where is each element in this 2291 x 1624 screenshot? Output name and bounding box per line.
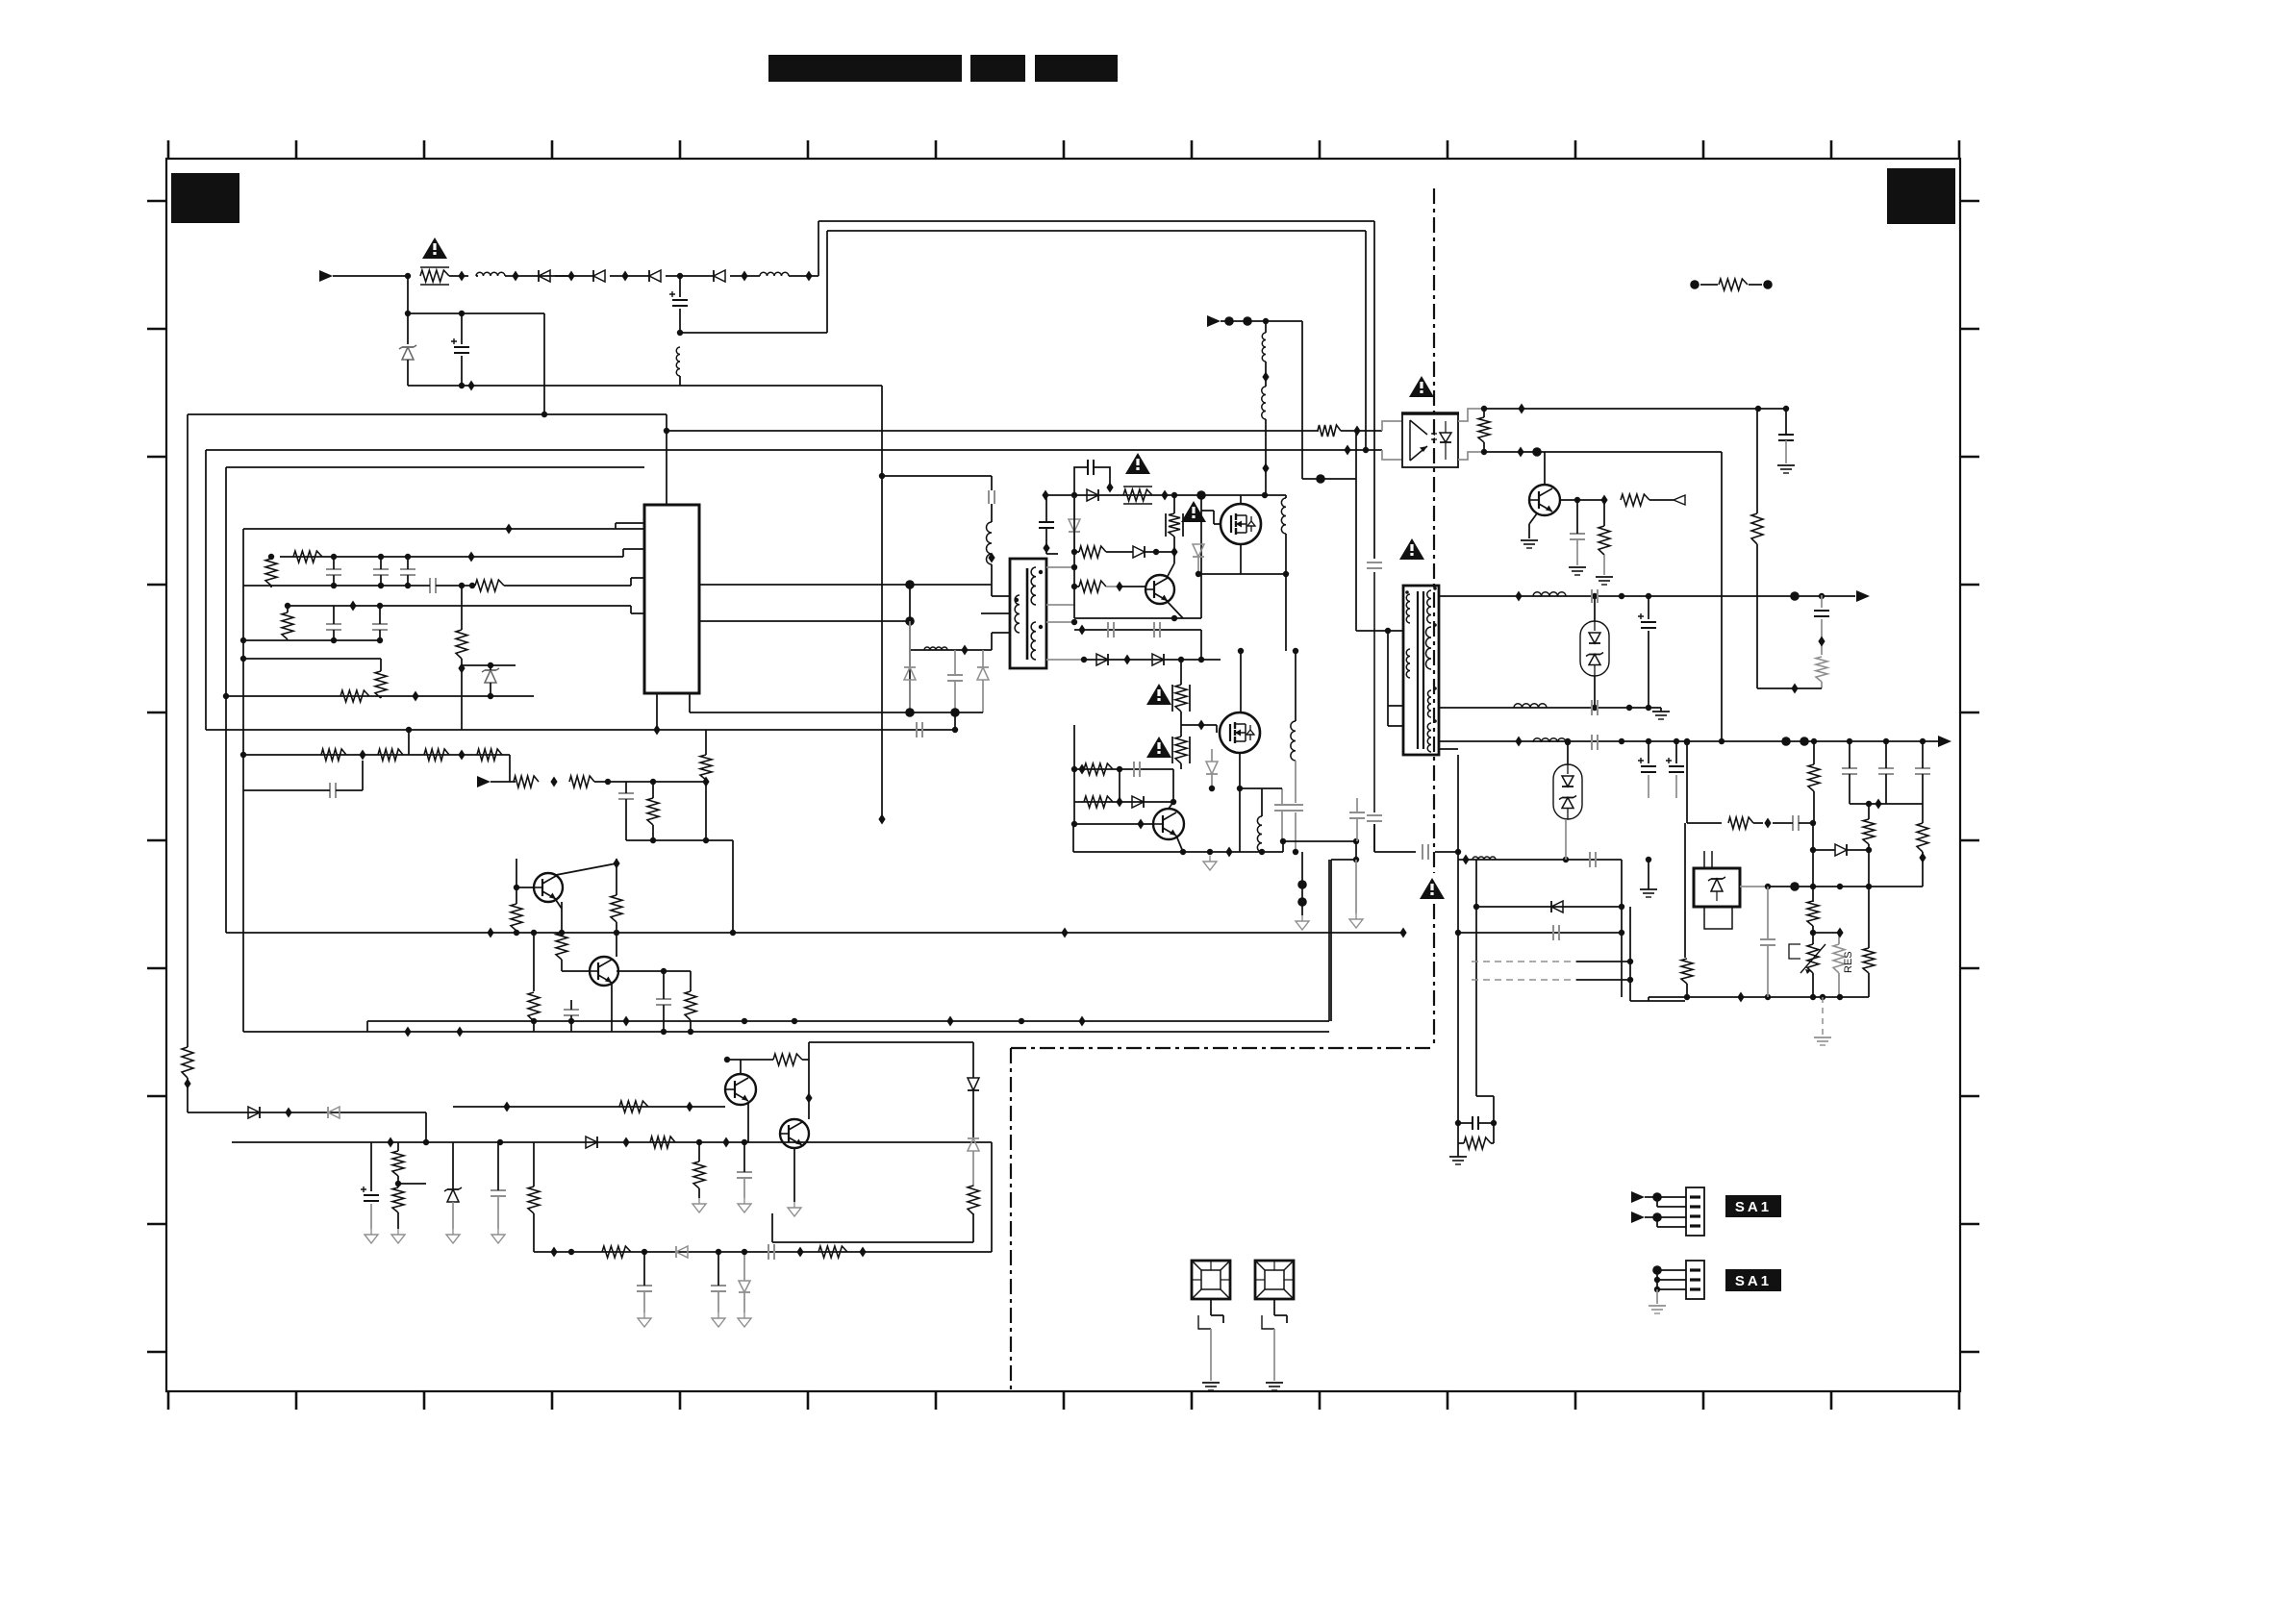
- resistor R20: [528, 930, 540, 1032]
- wire drop to drive rail: [541, 313, 547, 417]
- capacitor C19: [361, 1187, 379, 1229]
- capacitor C13 series: [917, 722, 922, 737]
- inductor L12: [1262, 321, 1269, 387]
- wire out rail 2: [1439, 737, 1938, 747]
- diode D18: [1206, 749, 1218, 791]
- resistor R33: [1074, 581, 1145, 592]
- junction: [467, 381, 474, 391]
- resistor R18: [556, 902, 567, 971]
- wire q9 collector: [1544, 452, 1546, 485]
- capacitor C24 series: [989, 476, 994, 522]
- junction: [567, 271, 574, 282]
- node rectified: [677, 273, 683, 279]
- wire transil1 stub: [1594, 596, 1596, 621]
- wire drv rail 1: [699, 580, 1010, 613]
- wire left bus A: [187, 414, 189, 1032]
- wire aux col: [1814, 595, 1829, 655]
- resistor R27: [392, 1184, 404, 1229]
- capacitor C48 series: [1553, 925, 1559, 940]
- diode D20: [1551, 901, 1563, 912]
- inductor L2: [760, 272, 789, 276]
- wire bus B+ upper: [818, 220, 1374, 222]
- warning triangle: [1399, 538, 1424, 560]
- warning triangle: [1181, 501, 1206, 522]
- wire drv gnd rail: [690, 708, 983, 717]
- wire: [780, 1142, 992, 1252]
- wire: [1355, 431, 1357, 631]
- junction: [512, 271, 518, 282]
- wire q9 emitter: [1529, 513, 1537, 538]
- wire emitter row: [1074, 615, 1201, 621]
- wire: [1331, 860, 1356, 1021]
- diode D21: [1810, 844, 1872, 856]
- inductor L8: [1533, 592, 1566, 596]
- wire q3 q4 link: [805, 1060, 812, 1119]
- resistor R23: [619, 1101, 648, 1112]
- ground: [738, 1312, 751, 1327]
- wire: [333, 275, 408, 277]
- resistor R6: [375, 659, 387, 698]
- capacitor C15: [618, 782, 634, 840]
- wire cluster2 top rail: [289, 601, 644, 614]
- wire drv riser: [879, 473, 992, 479]
- ground: [1202, 1329, 1220, 1390]
- wire ladder 3: [1472, 959, 1633, 964]
- transistor Q2: [590, 957, 618, 986]
- isolation boundary horizontal: [1011, 1047, 1434, 1049]
- junction: [621, 271, 628, 282]
- resistor R25: [693, 1142, 705, 1198]
- wire t2 left stub: [1385, 628, 1403, 726]
- diode D4: [714, 270, 725, 282]
- capacitor C14 series: [243, 761, 363, 798]
- wire cluster2 bottom rail: [240, 637, 380, 643]
- resistor R21: [685, 971, 696, 1032]
- transformer T1 driver: [1010, 559, 1046, 668]
- inductor L7: [1237, 786, 1262, 852]
- wire q3 top: [727, 1060, 741, 1074]
- wire standby loop bottom: [772, 1213, 973, 1242]
- wire horiz fb: [206, 445, 1382, 456]
- wire q5 emitter: [1167, 601, 1183, 618]
- wire opto out bottom: [1484, 447, 1722, 458]
- ground: [491, 1229, 505, 1243]
- snubber cap C34: [1455, 1116, 1497, 1130]
- resistor R4: [469, 578, 644, 591]
- wire t1 sec bot: [1046, 657, 1087, 662]
- resistor R9: [321, 749, 346, 761]
- resistor R16: [700, 730, 712, 840]
- capacitor C10 series: [421, 578, 472, 593]
- wire: [1262, 787, 1282, 789]
- wire: [408, 312, 544, 314]
- ground: [638, 1312, 651, 1327]
- junction: [458, 750, 465, 761]
- transistor Q8 driver: [1153, 809, 1184, 839]
- wire: [1630, 907, 1685, 1001]
- wire tl top rail: [1684, 739, 1722, 823]
- ground: [712, 1312, 725, 1327]
- wire opto drop: [1721, 452, 1723, 741]
- wire q4 emitter: [793, 1148, 795, 1202]
- signal arrow: [1631, 1212, 1662, 1223]
- isolation boundary left drop: [1010, 1048, 1012, 1391]
- resistor R42: [1621, 494, 1674, 506]
- diode D2: [593, 270, 605, 282]
- capacitor C41 series: [1592, 735, 1598, 750]
- resistor R17: [511, 887, 522, 936]
- polarized capacitor C38: [1638, 596, 1656, 708]
- output arrow 1: [1856, 590, 1870, 602]
- capacitor C49 series: [1773, 815, 1816, 831]
- resistor R29: [602, 1246, 631, 1258]
- input arrow AC line: [319, 270, 333, 282]
- wire out rail 1: [1439, 591, 1855, 602]
- capacitor C33 Y-cap: [1422, 844, 1461, 860]
- capacitor C11: [326, 606, 341, 643]
- wire: [555, 275, 593, 277]
- wire rc row a: [1071, 725, 1173, 802]
- ground: [1296, 915, 1309, 930]
- inductor L9: [1514, 704, 1547, 708]
- wire q7 drain: [1238, 648, 1244, 712]
- wire: [952, 712, 958, 733]
- page marker square top-left: [171, 173, 239, 223]
- diode D15: [1193, 544, 1204, 577]
- wire vcc mid: [909, 585, 911, 712]
- wire q2 base: [562, 971, 612, 1032]
- border frame and ruler ticks: [147, 140, 1979, 1410]
- wire pin feed: [243, 523, 644, 535]
- wire chain: [240, 752, 510, 758]
- wire: [666, 275, 714, 277]
- wire riser to bus2: [826, 231, 828, 333]
- junction: [404, 1016, 1085, 1037]
- wire horiz comp: [226, 466, 644, 468]
- ground: [1814, 1037, 1831, 1045]
- junction: [550, 777, 557, 787]
- wire q6 drain: [1240, 495, 1242, 504]
- fusible resistor R59: [1166, 495, 1183, 563]
- warning triangle on boundary: [1420, 878, 1445, 899]
- wire: [1353, 841, 1359, 862]
- wire q3 emitter: [747, 1102, 749, 1142]
- resistor R48: [1816, 657, 1827, 688]
- wire bus2 drop: [1363, 231, 1369, 453]
- wire: [1046, 553, 1058, 555]
- wire source drop: [1285, 574, 1287, 651]
- start node arrow: [1207, 315, 1302, 327]
- svg-text:RES: RES: [1843, 951, 1854, 973]
- wire cluster1 bottom rail: [243, 585, 421, 587]
- resistor R40 in left bus: [182, 1032, 193, 1112]
- inductor L5: [924, 647, 947, 650]
- wire ic top feed: [664, 414, 669, 505]
- ground: [1649, 1289, 1666, 1313]
- capacitor C21 series: [768, 1244, 774, 1260]
- wire bus drop right: [1373, 221, 1375, 559]
- wire primary feed: [1302, 474, 1356, 484]
- junction: [359, 750, 365, 761]
- connector J1: [1686, 1187, 1704, 1236]
- wire snubber top: [407, 276, 409, 344]
- wire ref: [1740, 882, 1923, 891]
- resistor R55: [1807, 901, 1819, 936]
- resistor R12: [477, 749, 502, 761]
- wire aux rail: [206, 729, 955, 731]
- diode D16: [1096, 654, 1108, 665]
- inductor L14 drain choke: [1288, 648, 1303, 855]
- wire left bus D: [242, 529, 244, 1032]
- ground: [1596, 577, 1613, 585]
- page marker square top-right: [1887, 168, 1955, 224]
- diode D12: [1087, 489, 1098, 501]
- diode D3: [649, 270, 661, 282]
- junction: [458, 271, 465, 282]
- resistor R51: [1728, 817, 1772, 829]
- resistor R28: [528, 1142, 540, 1252]
- wire: [1328, 860, 1330, 1021]
- wire: [594, 777, 710, 787]
- wire left bus B: [205, 450, 207, 730]
- ground: [1652, 708, 1670, 719]
- wire: [1374, 851, 1416, 853]
- warning triangle: [1146, 737, 1171, 758]
- wire rt rail: [223, 693, 534, 699]
- resistor R5: [282, 603, 293, 640]
- wire: [1301, 321, 1303, 479]
- wire diode row: [1084, 630, 1221, 665]
- capacitor C26 loop: [1074, 460, 1114, 493]
- resistor R36: [1084, 763, 1113, 775]
- capacitor C17: [656, 971, 671, 1032]
- redacted title bar 2: [970, 55, 1025, 82]
- junction: [458, 663, 465, 674]
- wire riser to bus1: [818, 221, 819, 276]
- diode D14: [1133, 546, 1174, 558]
- capacitor C2: [451, 311, 469, 388]
- wire sub rail: [1850, 799, 1923, 810]
- wire: [610, 275, 649, 277]
- wire rc row b: [1074, 769, 1176, 808]
- wire aux out row: [1458, 855, 1622, 865]
- ground: [1777, 465, 1795, 473]
- capacitor C31: [1274, 788, 1290, 841]
- wire base q1: [514, 859, 534, 890]
- inductor L1: [476, 272, 505, 276]
- wire q9 base row: [1560, 495, 1608, 506]
- warning triangle: [1146, 684, 1171, 705]
- wire q5 collector: [1167, 563, 1174, 578]
- wire conn pins: [1652, 1265, 1686, 1292]
- wire stdby divider: [370, 1142, 372, 1191]
- ground: [738, 1198, 751, 1212]
- wire aux gnd rail: [626, 837, 733, 843]
- junction: [741, 271, 747, 282]
- isolated resistor R44: [1690, 279, 1773, 290]
- wire: [730, 275, 760, 277]
- resistor R57: [1863, 850, 1875, 997]
- transistor Q3: [725, 1074, 756, 1105]
- diode D19: [1132, 796, 1144, 808]
- capacitor C16: [564, 1000, 579, 1032]
- wire: [1684, 823, 1686, 958]
- resistor chain rail drop: [406, 727, 412, 755]
- capacitor C28 series: [1108, 622, 1114, 637]
- capacitor C30 series: [1117, 762, 1140, 777]
- capacitor C5 on riser: [1367, 562, 1382, 812]
- redacted title bar 3: [1035, 55, 1118, 82]
- ground: [1521, 540, 1538, 548]
- resistor R58: [968, 1186, 979, 1242]
- wire vcc drop: [878, 386, 885, 825]
- wire q8 collector: [1169, 802, 1173, 809]
- wire base row q3: [453, 1102, 725, 1112]
- transformer T2 main: [1403, 586, 1439, 755]
- capacitor C1 reservoir: [669, 276, 688, 333]
- wire: [449, 275, 478, 277]
- capacitor C46: [1814, 741, 1930, 804]
- fusible resistor R1: [420, 267, 449, 285]
- diode D1: [539, 270, 550, 282]
- capacitor C6 on riser: [1367, 815, 1382, 852]
- resistor R26: [392, 1142, 404, 1187]
- diode D13: [1069, 495, 1080, 554]
- wire jog: [423, 1112, 429, 1145]
- resistor R11: [424, 749, 449, 761]
- wire ocp row: [534, 1247, 992, 1258]
- wire drv rail 2: [699, 616, 915, 626]
- wire opto out top: [1484, 404, 1786, 414]
- resistor R43: [1599, 500, 1610, 575]
- capacitor C18: [737, 1142, 752, 1198]
- potentiometer VR1: [1789, 933, 1825, 997]
- warning triangle fusible resistor: [422, 237, 447, 259]
- wire drop to y-cap: [1373, 824, 1375, 852]
- wire aux sec drop: [1476, 860, 1494, 1123]
- resistor R10: [378, 749, 403, 761]
- ground: [365, 1229, 378, 1243]
- wire: [491, 781, 516, 783]
- wire snubber bottom: [408, 385, 882, 387]
- capacitor C29 series: [1154, 622, 1160, 637]
- capacitor C44: [1842, 741, 1857, 804]
- ferrite bead FB1: [1192, 1261, 1230, 1329]
- wire gnd rail long: [243, 1031, 1329, 1033]
- wire: [992, 585, 1010, 596]
- wire horiz vcc: [188, 413, 667, 415]
- wire cluster1 top rail: [280, 549, 644, 562]
- wire drv low: [910, 633, 1010, 656]
- capacitor C9: [400, 554, 415, 588]
- ferrite bead FB2: [1255, 1261, 1294, 1329]
- wire dashed gnd: [1822, 997, 1824, 1035]
- resistor R2: [265, 554, 277, 587]
- capacitor C32: [1349, 798, 1365, 841]
- resistor R52: [1681, 959, 1693, 997]
- wire transil2 tail: [1565, 819, 1567, 860]
- ground: [692, 1198, 706, 1212]
- capacitor C12: [372, 603, 388, 643]
- zener diode ZD1: [399, 345, 416, 386]
- transistor Q9: [1529, 485, 1560, 515]
- wire gate drop: [1200, 495, 1202, 618]
- mosfet Q6: [1221, 504, 1261, 544]
- diode D22: [968, 1042, 979, 1138]
- capacitor C45: [1878, 741, 1894, 804]
- wire divider: [1812, 823, 1814, 902]
- wire bus B+ lower: [827, 230, 1366, 232]
- label SA1 upper: [1725, 1195, 1781, 1217]
- wire q1 emitter: [556, 900, 562, 909]
- resistor R53: [1808, 764, 1820, 823]
- svg-text:SA1: SA1: [1735, 1199, 1772, 1215]
- capacitor C23: [711, 1249, 726, 1312]
- resistor R54: [1863, 804, 1875, 850]
- optocoupler U2: [1401, 413, 1459, 467]
- regulator U3 TL431: [1694, 851, 1740, 929]
- wire: [680, 332, 827, 334]
- ground: [1203, 856, 1217, 870]
- wire out rail gnd: [1439, 705, 1661, 711]
- isolation boundary vertical: [1433, 188, 1435, 873]
- wire pin stub: [616, 528, 644, 530]
- transil TR2 lower: [1553, 739, 1582, 819]
- ground grey: [1349, 860, 1363, 928]
- resistor R24: [650, 1137, 675, 1148]
- fusible resistor R34: [1172, 657, 1190, 725]
- fusible resistor R35: [1172, 720, 1217, 770]
- capacitor C37 series: [1592, 589, 1598, 603]
- wire q1 collector link: [556, 859, 620, 888]
- node: [405, 311, 411, 316]
- ground: [391, 1229, 405, 1243]
- fusible resistor R31: [1123, 487, 1152, 504]
- capacitor C22: [637, 1252, 652, 1312]
- wire: [398, 1183, 426, 1185]
- wire fb sense row: [188, 1112, 426, 1113]
- capacitor C27: [1039, 495, 1054, 554]
- capacitor C35: [1778, 435, 1794, 463]
- wire q2 collector: [614, 930, 619, 957]
- wire t1 sec pins: [1046, 564, 1077, 625]
- connector J2: [1686, 1261, 1704, 1299]
- wire t2 left pin: [1356, 630, 1403, 632]
- node AC in: [405, 273, 411, 279]
- wire base row q4: [232, 1137, 780, 1148]
- wire ladder 2: [1455, 930, 1624, 936]
- wire: [1621, 860, 1623, 997]
- junction: [805, 271, 812, 282]
- diode D6: [248, 1107, 292, 1118]
- transistor Q4: [780, 1119, 809, 1148]
- wire conn pins: [1657, 1197, 1686, 1227]
- transil TR1: [1580, 621, 1609, 676]
- warning triangle: [1409, 376, 1434, 397]
- ground: [788, 1202, 801, 1216]
- wire q6 source: [1240, 544, 1242, 574]
- capacitor C50: [1760, 887, 1775, 997]
- wire gnd stack: [1297, 852, 1307, 915]
- inductor L4 winding: [987, 522, 995, 585]
- wire: [1071, 486, 1077, 618]
- wire: [505, 275, 571, 277]
- output arrow 2: [1938, 736, 1951, 747]
- wire cluster bottom rail: [1073, 824, 1283, 858]
- wire left bus C: [225, 467, 227, 933]
- inductor L3: [676, 347, 680, 386]
- wire source row: [1198, 571, 1289, 577]
